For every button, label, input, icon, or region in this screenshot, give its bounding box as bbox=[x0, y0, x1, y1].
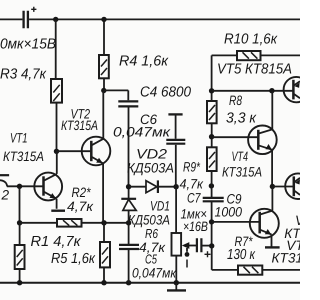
node U ground rail x176 bbox=[174, 280, 179, 285]
transistor VT3 bbox=[250, 209, 279, 248]
resistor R4 bbox=[99, 55, 109, 78]
wire R8 to node M bbox=[211, 123, 213, 147]
R6 wiper node dot bbox=[185, 252, 190, 257]
wire node Q down to VT3 collector bbox=[271, 187, 273, 211]
wire node D right and down to C4 bbox=[104, 90, 129, 100]
label VT5 type bbox=[217, 61, 292, 77]
svg-text:КД503А: КД503А bbox=[128, 212, 170, 227]
label R6 name bbox=[145, 226, 159, 241]
wire from node A down to R3 bbox=[55, 19, 57, 79]
svg-text:R4 1,6к: R4 1,6к bbox=[119, 53, 169, 69]
wire R7 right to edge bbox=[262, 269, 300, 271]
svg-text:130 к: 130 к bbox=[227, 247, 256, 263]
svg-text:2: 2 bbox=[1, 188, 10, 203]
svg-text:VD1: VD1 bbox=[150, 199, 170, 214]
label C7 value line2 bbox=[183, 219, 208, 234]
label R7 name bbox=[235, 234, 254, 249]
wire VT2 emitter rail to R5 bbox=[103, 223, 105, 242]
svg-text:R8: R8 bbox=[229, 93, 242, 108]
node L junction rail x212 y91 bbox=[209, 88, 214, 93]
node D junction R4 / VT2 collector / C4 bbox=[101, 88, 106, 93]
node F junction input / R1 branch bbox=[17, 184, 22, 189]
label R10 value bbox=[224, 32, 278, 48]
label VT1 type bbox=[3, 149, 44, 164]
R6 wiper dashed link bbox=[186, 260, 188, 268]
resistor R1 bbox=[15, 245, 25, 269]
C1 polarity plus sign bbox=[31, 7, 36, 12]
wire R4 bottom to node D bbox=[103, 78, 105, 90]
node G junction R2 left / R1 bbox=[17, 220, 22, 225]
diode VD1 bbox=[121, 187, 136, 223]
label VD1 type bbox=[128, 212, 170, 227]
node H junction R2 right on x104 rail bbox=[101, 220, 106, 225]
wire C5 chain bbox=[128, 223, 130, 244]
label C5 value bbox=[132, 265, 177, 280]
resistor R8 bbox=[207, 101, 217, 123]
label R8 value bbox=[226, 110, 257, 126]
svg-text:R9*: R9* bbox=[183, 159, 201, 174]
svg-text:R10 1,6к: R10 1,6к bbox=[224, 32, 278, 48]
label VT3 name cut at edge bbox=[286, 238, 312, 253]
R6 wiper arrow bbox=[182, 242, 197, 252]
capacitor C5 bbox=[119, 245, 139, 249]
node R ground rail x19 bbox=[17, 280, 22, 285]
wire top supply rail right of C1 bbox=[29, 18, 300, 20]
label R2 name bbox=[72, 185, 92, 200]
ground chassis below rail center bbox=[167, 283, 186, 291]
svg-text:0мк×15В: 0мк×15В bbox=[0, 36, 56, 52]
svg-text:КТ315: КТ315 bbox=[272, 250, 301, 265]
capacitor C7 electrolytic bbox=[197, 238, 202, 252]
ground chassis at VT1 emitter bbox=[51, 209, 65, 211]
transistor VT4 bbox=[248, 91, 277, 187]
wire node F down to node G bbox=[19, 186, 21, 223]
svg-text:1000: 1000 bbox=[215, 204, 243, 219]
svg-text:R5 1,6к: R5 1,6к bbox=[51, 251, 96, 267]
resistor R10 bbox=[237, 51, 261, 60]
node E junction C4 / VD2 / VD1 bbox=[126, 184, 131, 189]
label C6 value bbox=[113, 125, 171, 140]
input connector terminal left edge bbox=[0, 175, 9, 186]
node A junction top rail x56 bbox=[53, 17, 58, 22]
wire R10 left drop on x212 rail bbox=[212, 55, 237, 101]
wire ground rail bottom bbox=[0, 282, 300, 284]
node C junction VT1 collector / VT2 base bbox=[54, 149, 59, 154]
transistor VT6 bbox=[285, 173, 311, 199]
svg-text:КТ315А: КТ315А bbox=[222, 164, 262, 179]
svg-text:VT5 КТ815А: VT5 КТ815А bbox=[217, 61, 292, 77]
resistor R2 bbox=[20, 219, 129, 227]
svg-text:КТ315А: КТ315А bbox=[61, 118, 98, 133]
wire C9 bottom through node N to node O bbox=[211, 201, 213, 246]
resistor R9 bbox=[207, 147, 217, 171]
wire R3 bottom to node C bbox=[56, 103, 58, 152]
label R5 value bbox=[51, 251, 96, 267]
label R7 value bbox=[227, 247, 256, 263]
label R2 value bbox=[67, 199, 94, 214]
trimmer resistor R6 bbox=[172, 233, 182, 256]
node O junction C7 / R7 bend bbox=[209, 243, 214, 248]
capacitor C9 bbox=[203, 198, 224, 201]
label R4 value bbox=[119, 53, 169, 69]
svg-text:R1 4,7к: R1 4,7к bbox=[31, 234, 82, 250]
label C4 value bbox=[140, 84, 191, 100]
label VT2 type bbox=[61, 118, 98, 133]
label C9 value bbox=[215, 204, 243, 219]
wire node G down to R1 bbox=[19, 223, 21, 245]
label VT1 name bbox=[10, 130, 28, 145]
svg-text:4,7к: 4,7к bbox=[67, 199, 94, 214]
label C9 name bbox=[227, 191, 242, 206]
ground chassis at VT3 emitter bbox=[265, 246, 280, 248]
node K junction on x212 rail at y186 bbox=[209, 183, 214, 188]
svg-text:С5: С5 bbox=[145, 252, 158, 267]
wire C5 bottom to ground rail bbox=[128, 250, 130, 283]
node S ground rail x104 bbox=[101, 280, 106, 285]
label R9 value bbox=[180, 177, 204, 192]
wire from node B down to R4 bbox=[103, 19, 105, 55]
svg-text:R2*: R2* bbox=[72, 185, 92, 200]
resistor R3 bbox=[51, 79, 62, 103]
label C6 name bbox=[140, 112, 157, 127]
capacitor C6 bbox=[166, 114, 185, 186]
transistor VT2 bbox=[57, 91, 111, 223]
label C7 name bbox=[187, 190, 201, 205]
wire VT3 base from node N bbox=[212, 221, 260, 223]
label VD1 name bbox=[150, 199, 170, 214]
label VT3 type cut at edge bbox=[272, 250, 311, 265]
svg-text:R3 4,7к: R3 4,7к bbox=[0, 67, 47, 83]
svg-text:0,047мк: 0,047мк bbox=[132, 265, 177, 280]
wire R6 bottom to ground rail bbox=[175, 256, 177, 283]
wire R10 right to edge bbox=[261, 54, 301, 56]
label R3 value bbox=[0, 67, 47, 83]
wire node J down to R6 bbox=[175, 187, 177, 233]
svg-text:VD2: VD2 bbox=[136, 146, 168, 161]
label R8 name bbox=[229, 93, 242, 108]
node N junction C9 / VT3 base wire bbox=[209, 219, 214, 224]
label R1 value bbox=[31, 234, 82, 250]
wire top supply rail left of C1 bbox=[0, 18, 22, 20]
transistor VT1 bbox=[34, 151, 62, 209]
label C5 name bbox=[145, 252, 158, 267]
svg-text:×16В: ×16В bbox=[183, 219, 208, 234]
wire C7 to rail node bbox=[201, 245, 211, 247]
node J junction VD2 / C6 / R6 bbox=[173, 184, 178, 189]
svg-text:4,7к: 4,7к bbox=[180, 177, 204, 192]
label VT2 name bbox=[71, 107, 91, 122]
label VD2 name bbox=[136, 146, 168, 161]
C7 polarity plus sign bbox=[205, 251, 211, 257]
svg-text:С7: С7 bbox=[187, 190, 201, 205]
node T ground rail x128 bbox=[126, 280, 131, 285]
transistor VT5 bbox=[284, 77, 309, 102]
wire node L to VT5 base bbox=[212, 90, 294, 92]
wire node Q to VT6 base bbox=[272, 186, 293, 188]
label R6 value bbox=[139, 240, 166, 255]
node P junction VT4 collector on VT5 base wire bbox=[269, 88, 274, 93]
node M junction R8 / R9 / VT4 base bbox=[209, 134, 214, 139]
svg-text:VT4: VT4 bbox=[232, 149, 249, 164]
label VT4 type bbox=[222, 164, 262, 179]
node B junction top rail x104 bbox=[101, 17, 106, 22]
label C7 value line1 bbox=[181, 206, 208, 221]
svg-text:VT1: VT1 bbox=[10, 130, 28, 145]
svg-text:3,3 к: 3,3 к bbox=[226, 110, 257, 126]
wire R5 bottom to ground rail bbox=[103, 267, 105, 282]
label VT6 name cut at edge bbox=[295, 213, 320, 228]
label R9 name bbox=[183, 159, 201, 174]
label VT6 type cut at edge bbox=[284, 226, 320, 241]
wire input to VT1 base bbox=[7, 185, 44, 187]
resistor R5 bbox=[100, 242, 110, 267]
wire node O down and right to R7 bbox=[212, 246, 238, 270]
capacitor C1 electrolytic input top-left bbox=[24, 11, 28, 28]
wire C4 bottom to node E bbox=[128, 108, 130, 187]
diode VD2 bbox=[129, 180, 177, 193]
svg-text:КД503А: КД503А bbox=[127, 160, 174, 175]
resistor R7 bbox=[238, 266, 262, 275]
wire R1 bottom to ground rail bbox=[19, 269, 21, 283]
svg-text:0,047мк: 0,047мк bbox=[113, 125, 171, 140]
node Q junction VT4 emitter / VT6 base / VT3 collector bbox=[270, 184, 275, 189]
svg-text:КТ315А: КТ315А bbox=[3, 149, 44, 164]
ground chassis top of C6 bbox=[168, 113, 182, 115]
label VT4 name bbox=[232, 149, 249, 164]
node I junction R2 / VD1 / C5 bbox=[126, 220, 131, 225]
wire R9 bottom to C9 bbox=[211, 171, 213, 198]
label C1 value bbox=[0, 36, 56, 52]
label VD2 type bbox=[127, 160, 174, 175]
capacitor C4 bbox=[118, 101, 138, 106]
svg-text:С4 6800: С4 6800 bbox=[140, 84, 191, 100]
wire VT4 base from node M bbox=[212, 136, 259, 138]
label input level cut at edge bbox=[0, 188, 10, 203]
